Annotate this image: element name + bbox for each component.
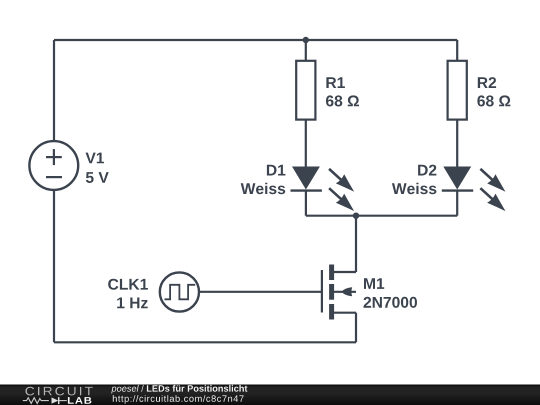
label D1 value [241, 183, 286, 195]
wire D1 cathode down [305, 191, 307, 216]
LED D2 [442, 167, 473, 191]
wire R1 to D1 [305, 120, 307, 167]
resistor R2 [448, 61, 467, 120]
M1 channel segment body [329, 284, 334, 300]
wire R2 top lead [456, 40, 458, 61]
M1 channel segment drain [329, 265, 334, 281]
wire bottom rail [54, 341, 356, 343]
label D2 [418, 165, 436, 176]
resistor R1 [296, 61, 315, 120]
node junction cathode bus [353, 213, 359, 219]
clock source CLK1 [160, 272, 199, 311]
wire source vertical [355, 313, 357, 343]
LED D1 light arrow 1 [325, 164, 358, 196]
LED D1 [291, 167, 322, 191]
wire left rail lower [53, 190, 55, 342]
transistor M1 NMOS [322, 265, 356, 320]
node junction top [303, 37, 309, 43]
label R2 [478, 77, 496, 88]
wire R2 to D2 [456, 120, 458, 167]
LED D1 light arrow 2 [325, 184, 358, 216]
wire gate lead [200, 291, 322, 293]
wire top rail [54, 39, 457, 41]
M1 gate bar [321, 270, 323, 313]
M1 source lead [334, 312, 356, 314]
logo zigzag resistor [23, 398, 49, 404]
wire left rail upper [53, 40, 55, 141]
voltage source V1 [29, 141, 78, 190]
label V1 [86, 153, 105, 164]
label CLK1 value [117, 298, 148, 309]
logo diode [52, 397, 59, 403]
M1 drain lead [334, 271, 356, 273]
M1 body lead [334, 291, 356, 293]
M1 channel segment source [329, 304, 334, 320]
logo LAB [68, 397, 92, 404]
logo CIRCUIT [25, 387, 92, 396]
label V1 value [86, 172, 109, 183]
label M1 [364, 278, 384, 289]
label R2 value [477, 95, 510, 106]
label R1 [326, 77, 345, 88]
label R1 value [326, 95, 359, 106]
wire R1 top lead [305, 40, 307, 61]
label D1 [267, 165, 286, 176]
wire drain vertical [355, 216, 357, 272]
label D2 value [392, 183, 437, 195]
label M1 part [364, 297, 418, 308]
footer url text [113, 395, 244, 404]
footer title text [111, 385, 247, 394]
M1 body arrow [342, 287, 352, 296]
wire D2 cathode down [456, 191, 458, 216]
LED D2 light arrow 1 [476, 164, 509, 196]
wire cathode bus [306, 215, 457, 217]
label CLK1 [108, 279, 148, 290]
LED D2 light arrow 2 [476, 184, 509, 216]
